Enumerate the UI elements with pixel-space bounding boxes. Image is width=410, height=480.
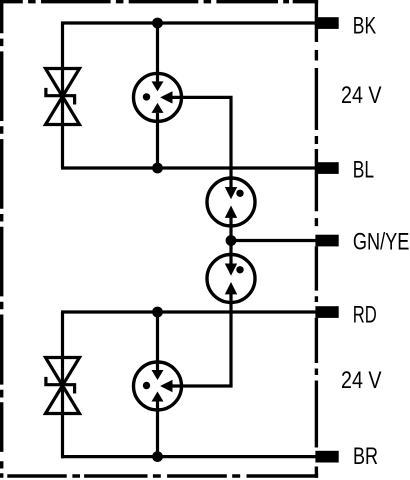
wire BK net horizontal bbox=[61, 21, 316, 24]
enclosure dashed border right edge bbox=[315, 0, 318, 478]
node junction dot RD/GDT F4 bbox=[152, 307, 163, 318]
node junction dot BK/GDT F1 bbox=[152, 18, 163, 29]
gas discharge tube F4 (3-electrode) circle bbox=[134, 362, 182, 410]
wire GDT F1 top shaft bbox=[156, 23, 159, 81]
gas discharge tube F2 arrows and gas dot bbox=[225, 187, 244, 218]
wire GDT F4 bottom shaft bbox=[156, 402, 159, 457]
suppressor diode D1 (bidirectional TVS) bbox=[46, 69, 80, 125]
gas discharge tube F3 (2-electrode) circle bbox=[207, 255, 255, 303]
wire BL net horizontal bbox=[61, 166, 316, 169]
gas discharge tube F1 arrows and gas dot bbox=[143, 81, 173, 113]
wire left branch BK to BL through diode D1 bbox=[61, 22, 64, 168]
svg-text:BK: BK bbox=[353, 13, 376, 40]
wire GN/YE net horizontal bbox=[231, 239, 316, 242]
node junction dot BL/GDT F1 bbox=[152, 163, 163, 174]
gas discharge tube F2 (2-electrode) circle bbox=[207, 178, 255, 226]
wire GDT F4 top shaft bbox=[156, 312, 159, 370]
wire GDT F2 bottom shaft to GN/YE node bbox=[229, 218, 232, 241]
svg-text:24 V: 24 V bbox=[341, 82, 382, 109]
svg-text:GN/YE: GN/YE bbox=[353, 229, 410, 256]
gas discharge tube F4 arrows and gas dot bbox=[143, 370, 173, 402]
wire BR net horizontal bbox=[61, 455, 316, 458]
node junction dot GN/YE bbox=[226, 235, 237, 246]
wire GDT F1 right electrode to GDT F2 bbox=[172, 97, 231, 178]
node junction dot BR/GDT F4 bbox=[152, 451, 163, 462]
enclosure dashed border top edge bbox=[0, 0, 318, 3]
wire RD net horizontal bbox=[61, 310, 316, 313]
enclosure dashed border bottom edge bbox=[7, 474, 318, 477]
gas discharge tube F1 (3-electrode) circle bbox=[134, 73, 182, 121]
terminal BK block bbox=[315, 17, 338, 29]
wire left branch RD to BR through diode D2 bbox=[61, 312, 64, 458]
svg-text:BL: BL bbox=[353, 156, 374, 183]
enclosure dashed border left edge bbox=[0, 0, 3, 478]
svg-text:RD: RD bbox=[353, 301, 377, 328]
terminal BR block bbox=[315, 451, 338, 463]
wire GDT F1 bottom shaft bbox=[156, 113, 159, 168]
svg-text:24 V: 24 V bbox=[341, 367, 382, 394]
svg-text:BR: BR bbox=[353, 443, 378, 470]
terminal RD block bbox=[315, 306, 338, 318]
terminal GN/YE block bbox=[315, 235, 338, 247]
terminal BL block bbox=[315, 162, 338, 174]
gas discharge tube F3 arrows and gas dot bbox=[225, 264, 244, 295]
wire GDT F3 bottom shaft down and left to GDT F4 right electrode bbox=[172, 294, 231, 386]
suppressor diode D2 (bidirectional TVS) bbox=[46, 358, 80, 414]
wire GDT F3 top shaft from GN/YE node bbox=[229, 241, 232, 265]
wire GDT F2 top shaft inside circle bbox=[229, 178, 232, 188]
